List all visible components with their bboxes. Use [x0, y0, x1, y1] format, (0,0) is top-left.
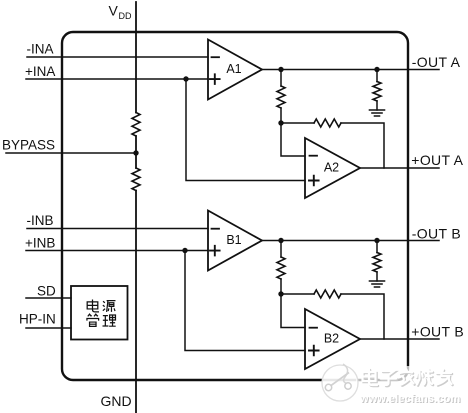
node A divider junction: [278, 120, 283, 125]
svg-text:-INB: -INB: [27, 213, 54, 228]
node B1 out junction: [278, 238, 283, 243]
main IC boundary box: [62, 32, 408, 380]
op-amp B2: [305, 309, 360, 369]
power management block 电源管理: [71, 286, 128, 340]
char 源: [103, 301, 116, 312]
char 电: [87, 300, 99, 312]
svg-text:GND: GND: [101, 393, 132, 409]
svg-text:-OUT A: -OUT A: [412, 54, 461, 70]
node +INB junction: [182, 248, 187, 253]
node A1 out junction: [278, 67, 283, 72]
wire A1 output to -OUT A: [262, 69, 439, 71]
op-amp B1: [208, 211, 262, 271]
node BYPASS junction: [133, 150, 138, 155]
svg-text:-INA: -INA: [27, 42, 54, 57]
svg-text:A2: A2: [324, 161, 339, 175]
op-amp A2: [305, 138, 360, 198]
resistor R6 (B feedback divider): [277, 257, 285, 279]
watermark 电子发烧友 (hand-drawn gray glyphs, embossed): [363, 369, 453, 386]
svg-text:A1: A1: [226, 62, 241, 76]
wire B2 output to +OUT B: [360, 338, 439, 340]
svg-text:V: V: [109, 3, 119, 19]
wire SD line: [26, 297, 71, 299]
svg-text:HP-IN: HP-IN: [19, 311, 56, 326]
resistor R5 (A2 feedback) with wires: [281, 122, 314, 124]
svg-text:+OUT B: +OUT B: [411, 324, 464, 340]
wire -INB input line: [27, 228, 208, 230]
node B divider junction: [278, 291, 283, 296]
char 理: [103, 315, 116, 326]
wire A output node branch: dot at 281 down to node: [280, 70, 282, 87]
wire node A to A2 minus input: [281, 123, 305, 156]
svg-text:+OUT A: +OUT A: [411, 152, 463, 168]
svg-text:B1: B1: [226, 233, 241, 247]
node +INA junction: [183, 76, 188, 81]
node A gnd-res junction: [374, 67, 379, 72]
watermark logo (elecfans): [322, 364, 358, 401]
wire +INB input line: [26, 250, 208, 252]
wire -INA input line: [27, 56, 208, 58]
svg-text:BYPASS: BYPASS: [2, 137, 55, 152]
wire B output node branch: [280, 241, 282, 258]
svg-text:B2: B2: [324, 332, 339, 346]
wire node B to B2 minus input: [281, 294, 305, 328]
svg-text:+INA: +INA: [25, 64, 55, 79]
ground symbol (A): [370, 110, 385, 116]
ground symbol (B): [370, 281, 385, 287]
wire A2 output to +OUT A: [360, 167, 439, 169]
wire HP-IN line: [26, 327, 71, 329]
watermark band lightening schematic beneath text: [356, 366, 464, 389]
char 管: [87, 314, 99, 326]
wire VDD rail vertical x=136: [135, 2, 137, 413]
电源管理 text (hand-drawn CJK glyphs): [87, 300, 116, 327]
svg-text:SD: SD: [37, 283, 56, 298]
resistor R7 (to ground, B): [373, 253, 381, 273]
node B gnd-res junction: [374, 238, 379, 243]
resistor R1 on VDD rail (upper): [132, 113, 140, 137]
op-amp A1: [208, 40, 262, 100]
svg-text:DD: DD: [119, 11, 132, 21]
resistor R2 on VDD rail (lower): [132, 168, 140, 191]
wire branch to R7/ground: [376, 241, 378, 253]
wire from +INA junction down to A2 plus input: [186, 79, 305, 181]
wire +INA input line: [26, 78, 208, 80]
wire B1 output to -OUT B: [262, 240, 439, 242]
svg-text:www.elecfans.com: www.elecfans.com: [359, 393, 460, 405]
wire from +INB junction down to B2 plus input: [185, 251, 305, 351]
svg-text:+INB: +INB: [25, 236, 55, 251]
resistor R8 (B2 feedback) with wires: [281, 293, 314, 295]
wire branch to R4/ground: [376, 70, 378, 82]
wire BYPASS line: [6, 152, 136, 154]
svg-text:-OUT B: -OUT B: [412, 225, 461, 241]
resistor R4 (to ground, A): [373, 82, 381, 102]
resistor R3 (A feedback divider): [277, 86, 285, 108]
